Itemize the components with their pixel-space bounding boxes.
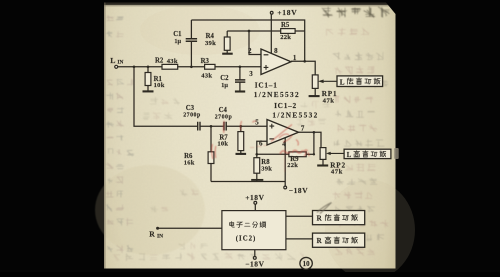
wire IC2 to R treble box xyxy=(286,238,313,240)
op-amp IC1-1 xyxy=(261,49,291,75)
wire pin 4 to -18V xyxy=(284,138,286,186)
wire pin 8 to +18V xyxy=(270,14,272,53)
svg-text:L: L xyxy=(340,78,345,86)
wire R IN to IC2 box xyxy=(159,227,222,229)
resistor R1 xyxy=(145,67,165,91)
wire IC1-1 output xyxy=(291,61,315,75)
svg-text:R5: R5 xyxy=(281,22,290,29)
ground (RP2) xyxy=(317,164,328,166)
svg-text:16k: 16k xyxy=(184,160,195,167)
capacitor C2 xyxy=(220,67,245,91)
box L treble amplifier xyxy=(344,149,391,159)
svg-text:2: 2 xyxy=(248,47,252,55)
capacitor C1 xyxy=(173,20,197,67)
svg-text:43k: 43k xyxy=(201,72,212,79)
svg-text:IC1–2: IC1–2 xyxy=(274,101,297,110)
svg-text:C1: C1 xyxy=(173,31,182,38)
pin 8 label xyxy=(274,47,278,55)
resistor R5 xyxy=(280,22,295,41)
resistor R9 xyxy=(255,152,315,169)
op-amp IC1-2 xyxy=(267,120,299,146)
wire inverting rail pin 2 xyxy=(227,30,305,55)
svg-text:39k: 39k xyxy=(205,40,216,47)
block electronic crossover IC2 xyxy=(222,211,286,250)
wire L IN to R2 xyxy=(118,65,162,68)
svg-text:(IC2): (IC2) xyxy=(236,235,256,242)
capacitor C3 xyxy=(183,105,201,130)
capacitor C4 xyxy=(215,107,233,130)
wire negative rail (R6/R8 to -18V) xyxy=(211,181,285,183)
wire IC2 to R bass box xyxy=(286,215,313,217)
wire R3 to op-amp pin 3 xyxy=(215,65,261,68)
svg-text:−18V: −18V xyxy=(289,186,308,195)
potentiometer RP2 xyxy=(320,148,346,176)
box R treble amplifier xyxy=(313,233,365,247)
svg-text:22k: 22k xyxy=(287,162,298,169)
node L IN input terminal xyxy=(110,56,123,69)
svg-text:5: 5 xyxy=(255,119,259,127)
resistor R3 xyxy=(201,58,215,80)
pin 6 label xyxy=(259,140,263,148)
svg-text:IN: IN xyxy=(117,60,123,66)
svg-text:8: 8 xyxy=(274,47,278,55)
ground (R1) xyxy=(143,90,154,92)
resistor R8 xyxy=(251,158,272,182)
wire pin 6 xyxy=(257,141,267,158)
svg-text:1/2NE5532: 1/2NE5532 xyxy=(254,90,300,99)
-18V supply terminal (mid) xyxy=(284,186,308,195)
svg-text:R2: R2 xyxy=(155,57,164,64)
potentiometer RP1 xyxy=(312,75,337,105)
svg-text:3: 3 xyxy=(249,70,253,78)
pin 1 label xyxy=(293,54,297,62)
+18V supply terminal (bottom) xyxy=(245,193,264,204)
svg-text:1μ: 1μ xyxy=(221,82,228,89)
svg-text:R: R xyxy=(149,229,155,238)
wire C4 to op-amp pin 5 xyxy=(226,125,267,128)
svg-text:IC1–1: IC1–1 xyxy=(255,81,278,90)
svg-text:39k: 39k xyxy=(261,166,272,173)
svg-text:R3: R3 xyxy=(201,58,210,65)
label IC1-1 xyxy=(254,81,300,100)
wire feedback top rail (C1 to output) xyxy=(191,20,306,63)
ground (RP1) xyxy=(309,95,320,97)
wire +18V to IC2 box xyxy=(254,204,256,210)
pin 4 label xyxy=(282,140,286,148)
svg-text:L: L xyxy=(347,152,352,159)
box R bass amplifier xyxy=(313,211,365,225)
svg-text:C3: C3 xyxy=(186,105,195,112)
ground (C2) xyxy=(235,90,245,92)
svg-text:C4: C4 xyxy=(219,107,228,114)
svg-text:1: 1 xyxy=(293,54,297,62)
resistor R4 xyxy=(205,31,230,53)
svg-text:+18V: +18V xyxy=(277,8,297,17)
pin 7 label xyxy=(301,124,305,132)
wire node to high-pass input xyxy=(134,67,198,127)
svg-text:10k: 10k xyxy=(154,82,165,89)
svg-text:L: L xyxy=(110,56,115,65)
svg-text:47k: 47k xyxy=(323,97,335,104)
svg-text:7: 7 xyxy=(301,124,305,132)
wire R2 to R3, node A xyxy=(178,65,205,68)
-18V supply terminal (bottom) xyxy=(245,250,264,269)
pin 5 label xyxy=(255,119,259,127)
svg-text:−18V: −18V xyxy=(245,260,264,269)
resistor R6 xyxy=(184,126,214,181)
resistor R7 xyxy=(217,126,243,153)
label IC1-2 xyxy=(272,101,318,119)
pin 2 label xyxy=(248,47,252,55)
svg-text:1μ: 1μ xyxy=(174,38,181,45)
svg-text:10: 10 xyxy=(303,260,311,268)
wire C3 to C4 xyxy=(200,125,224,128)
ground (R4) xyxy=(222,53,233,55)
wire R9 feedback vertical xyxy=(313,132,315,154)
svg-text:47k: 47k xyxy=(331,168,343,175)
resistor R2 xyxy=(155,57,178,69)
svg-text:2700p: 2700p xyxy=(183,112,201,118)
svg-text:2700p: 2700p xyxy=(215,114,233,120)
svg-text:10k: 10k xyxy=(217,141,228,148)
svg-text:22k: 22k xyxy=(280,34,291,41)
+18V supply terminal (top) xyxy=(270,8,297,17)
figure number 10 xyxy=(300,257,312,269)
box L bass amplifier xyxy=(337,76,383,87)
svg-text:IN: IN xyxy=(157,234,163,240)
svg-text:43k: 43k xyxy=(167,58,178,65)
ground (R7) xyxy=(236,153,247,155)
pin 3 label xyxy=(249,70,253,78)
svg-text:1/2NE5532: 1/2NE5532 xyxy=(272,111,318,120)
wire IC1-2 output xyxy=(299,131,322,148)
node R IN input terminal xyxy=(149,227,163,240)
